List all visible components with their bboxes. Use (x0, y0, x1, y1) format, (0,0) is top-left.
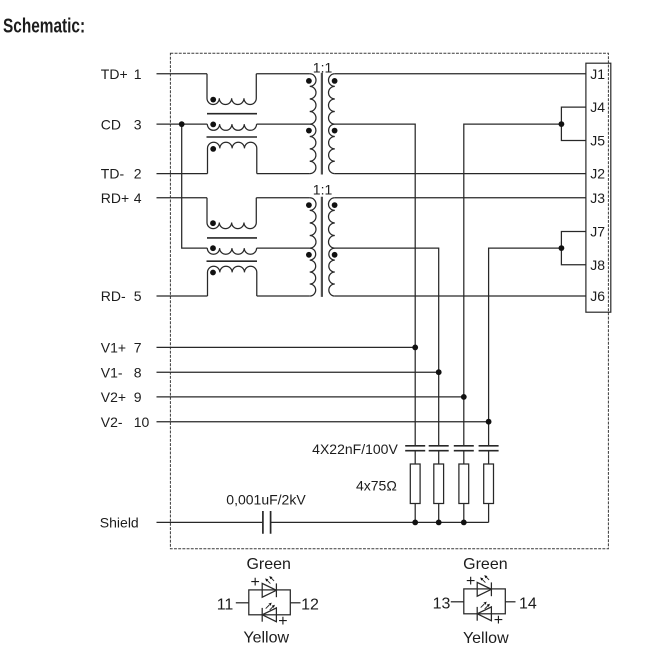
svg-text:J5: J5 (590, 133, 605, 149)
junction dot V2- node (486, 419, 492, 425)
LED pair box right (464, 589, 506, 614)
resistor R2 body (434, 464, 444, 504)
LED D3 emission arrow 2 (486, 577, 489, 580)
wire pin 13 lead (451, 601, 464, 603)
phase dot choke T2 winding a (210, 220, 216, 226)
wire shield feed (157, 521, 263, 523)
wire bracket J7 J8 (561, 232, 586, 265)
connector J box (586, 63, 611, 312)
svg-text:J4: J4 (590, 99, 605, 115)
wire V1+ pin7 (157, 346, 416, 348)
transformer X1 secondary winding lower (329, 124, 335, 174)
svg-text:12: 12 (301, 596, 319, 613)
LED module right (451, 582, 516, 620)
capacitor C2 plates (429, 446, 449, 451)
svg-text:Yellow: Yellow (463, 630, 509, 647)
wire bracket J4 J5 (561, 107, 586, 140)
transformer X2 secondary winding upper (329, 198, 335, 248)
svg-text:1: 1 (134, 66, 142, 82)
wire secondary X1 top to J1 (335, 73, 586, 75)
svg-text:4x75Ω: 4x75Ω (356, 477, 397, 493)
LED D1 cathode bar (275, 583, 277, 597)
choke T2 winding c (208, 266, 257, 296)
svg-text:V1+: V1+ (101, 340, 126, 356)
junction dot V1- node (436, 369, 442, 375)
choke T2 core bar 2 (207, 260, 258, 262)
svg-text:7: 7 (134, 340, 142, 356)
svg-text:5: 5 (134, 288, 142, 304)
svg-text:J2: J2 (590, 166, 605, 182)
wire choke T2 to transformer primary ct (257, 247, 310, 249)
svg-text:3: 3 (134, 116, 142, 132)
capacitor C1 plates (405, 446, 425, 451)
phase dot X1 primary upper (306, 78, 312, 84)
svg-text:TD-: TD- (101, 166, 125, 182)
junction dot shield R1 (412, 520, 418, 526)
svg-text:4X22nF/100V: 4X22nF/100V (312, 441, 398, 457)
svg-text:J7: J7 (590, 224, 605, 240)
resistor R1 body (410, 464, 420, 504)
LED D3 emission arrow 1 (482, 579, 486, 583)
wire shield rail (271, 521, 489, 523)
choke T1 winding a (207, 74, 256, 105)
phase dot X2 primary lower (306, 252, 312, 258)
wire CD vertical to second choke (182, 124, 208, 248)
wire RD+ pin4 feed (157, 197, 208, 199)
svg-text:+: + (251, 574, 260, 591)
wire R4 to shield rail (488, 504, 490, 523)
dashed module boundary box (170, 53, 608, 549)
wire C4 to R4 (488, 451, 490, 464)
wire J7 J8 center tap to V2- rail (489, 248, 562, 446)
svg-text:1:1: 1:1 (313, 60, 333, 76)
svg-text:+: + (278, 613, 287, 630)
choke T1 winding b (207, 124, 256, 130)
svg-text:8: 8 (134, 364, 142, 380)
junction dot J4 J5 bracket (559, 121, 565, 127)
wire R3 to shield rail (463, 504, 465, 523)
transformer X1 primary winding upper (310, 74, 316, 124)
phase dot X2 secondary lower (332, 252, 338, 258)
LED pair box left (249, 590, 290, 615)
wire V2+ pin9 (157, 396, 464, 398)
wire C1 to R1 (414, 451, 416, 464)
junction dot shield R2 (436, 520, 442, 526)
wire pin 14 lead (505, 601, 515, 603)
LED D4 cathode bar (476, 607, 478, 621)
junction dot CD node (179, 121, 185, 127)
resistor R3 body (459, 464, 469, 504)
transformer X2 primary winding lower (310, 248, 316, 296)
junction dot shield R3 (461, 520, 467, 526)
choke T2 core bar 1 (207, 237, 257, 239)
wire CD pin3 feed (157, 123, 208, 125)
svg-text:+: + (466, 573, 475, 590)
phase dot choke T1 winding b (210, 122, 216, 128)
LED D2 cathode bar (261, 608, 263, 622)
svg-text:Shield: Shield (100, 515, 139, 531)
choke T1 core bar 2 (207, 136, 258, 138)
LED D1 emission arrow 1 (267, 580, 271, 584)
svg-text:CD: CD (101, 116, 121, 132)
wire TD+ pin1 feed (157, 73, 208, 75)
svg-text:11: 11 (217, 596, 234, 613)
svg-text:Schematic:: Schematic: (3, 15, 85, 37)
wire choke T1 to transformer primary top (256, 73, 309, 75)
capacitor C3 plates (454, 446, 474, 451)
phase dot X2 secondary upper (332, 202, 338, 208)
svg-text:+: + (494, 612, 503, 629)
LED D2 emission arrow 2 (270, 606, 274, 610)
svg-text:RD+: RD+ (101, 190, 129, 206)
wire choke T1 to transformer primary bottom (257, 173, 310, 175)
junction dot J7 J8 bracket (559, 245, 565, 251)
wire pin 12 lead (290, 602, 300, 604)
svg-text:J6: J6 (590, 288, 605, 304)
wire R1 to shield rail (414, 504, 416, 523)
junction dot V2+ node (461, 394, 467, 400)
choke T1 winding c (208, 142, 257, 173)
transformer X2 secondary winding lower (329, 248, 335, 296)
svg-text:0,001uF/2kV: 0,001uF/2kV (226, 491, 306, 507)
svg-text:J3: J3 (590, 190, 605, 206)
svg-text:V2-: V2- (101, 414, 123, 430)
choke T2 winding b (207, 248, 256, 254)
phase dot choke T1 winding a (210, 97, 216, 103)
choke T2 winding a (207, 198, 256, 229)
wire TD- pin2 feed (157, 173, 208, 175)
transformer X1 primary winding lower (310, 124, 316, 174)
LED module left (236, 583, 301, 621)
svg-text:TD+: TD+ (101, 66, 128, 82)
svg-text:RD-: RD- (101, 288, 126, 304)
phase dot X2 primary upper (306, 202, 312, 208)
svg-text:1:1: 1:1 (313, 181, 333, 197)
svg-text:13: 13 (433, 595, 451, 612)
capacitor C4 plates (479, 446, 499, 451)
svg-text:9: 9 (134, 389, 142, 405)
resistor R4 body (484, 464, 494, 504)
LED D4 yellow triangle (477, 607, 491, 621)
wire secondary X1 bottom to J2 (335, 173, 586, 175)
svg-text:J1: J1 (590, 66, 605, 82)
svg-text:Yellow: Yellow (243, 630, 289, 647)
transformer X2 core bar (321, 197, 323, 297)
wire V2- pin10 (157, 421, 489, 423)
phase dot X1 secondary upper (332, 78, 338, 84)
wire C2 to R2 (438, 451, 440, 464)
LED D2 yellow triangle (262, 608, 276, 622)
wire V1- pin8 (157, 371, 439, 373)
LED D4 emission arrow 1 (481, 604, 485, 608)
transformer X1 secondary winding upper (329, 74, 335, 124)
LED D3 cathode bar (490, 582, 492, 596)
wire secondary X2 top to J3 (335, 197, 586, 199)
wire choke T1 to transformer primary ct (257, 123, 310, 125)
wire choke T2 to transformer primary top (256, 197, 309, 199)
wire R2 to shield rail (438, 504, 440, 523)
wire J4 J5 center tap to V2+ rail (464, 124, 562, 446)
wire C3 to R3 (463, 451, 465, 464)
svg-text:V2+: V2+ (101, 389, 126, 405)
phase dot X1 secondary lower (332, 128, 338, 134)
LED D2 emission arrow 1 (266, 605, 270, 609)
svg-text:14: 14 (519, 595, 537, 612)
svg-text:J8: J8 (590, 257, 605, 273)
phase dot choke T1 winding c (210, 146, 216, 152)
svg-text:10: 10 (134, 414, 150, 430)
svg-text:V1-: V1- (101, 364, 123, 380)
LED D3 green triangle (477, 582, 491, 596)
wire RD- pin5 feed (157, 295, 208, 297)
wire secondary X1 ct to V1+ rail (335, 124, 415, 446)
svg-text:2: 2 (134, 166, 142, 182)
LED D1 green triangle (262, 583, 276, 597)
wire secondary X2 ct to V1- rail (335, 248, 439, 446)
capacitor C5 shield plates (263, 511, 271, 534)
phase dot choke T2 winding b (210, 245, 216, 251)
wire secondary X2 bottom to J6 (335, 295, 586, 297)
svg-text:4: 4 (134, 190, 142, 206)
LED D1 emission arrow 2 (271, 578, 274, 581)
transformer X1 core bar (321, 73, 323, 175)
svg-text:Green: Green (246, 556, 290, 573)
wire choke T2 to transformer primary bottom (257, 295, 310, 297)
phase dot choke T2 winding c (210, 270, 216, 276)
choke T1 core bar 1 (207, 113, 257, 115)
svg-text:Green: Green (463, 556, 507, 573)
transformer X2 primary winding upper (310, 198, 316, 248)
phase dot X1 primary lower (306, 128, 312, 134)
LED D4 emission arrow 2 (485, 605, 489, 609)
wire pin 11 lead (236, 602, 249, 604)
junction dot V1+ node (412, 345, 418, 351)
